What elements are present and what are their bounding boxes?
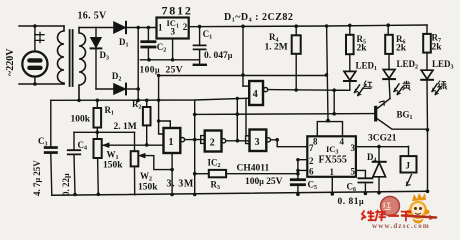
resistor R3 3.3M: [167, 170, 298, 191]
node x326 y75: [325, 73, 329, 77]
svg-text:4: 4: [340, 137, 345, 147]
svg-text:16. 5V: 16. 5V: [78, 11, 107, 22]
wire 555 supply vertical: [327, 26, 328, 121]
svg-text:150k: 150k: [138, 183, 158, 193]
capacitor C4 0.22u: [61, 132, 87, 196]
node W1 bottom rail: [97, 193, 101, 197]
wire x233 stub: [236, 98, 238, 140]
wire pin3 output: [356, 146, 409, 148]
node gate1 bottom rail: [170, 193, 174, 197]
svg-text:0. 047μ: 0. 047μ: [204, 51, 233, 61]
wire AC bottom stub: [19, 83, 64, 85]
node C2 bottom: [147, 58, 151, 62]
resistor R2 2.1M: [114, 99, 151, 145]
svg-text:D1~D4 : 2CZ82: D1~D4 : 2CZ82: [224, 12, 293, 24]
node W2 wiper junction: [170, 168, 174, 172]
watermark seal: [381, 197, 400, 216]
svg-text:2k: 2k: [396, 44, 407, 54]
wire bottom ground rail: [52, 191, 428, 195]
svg-text:www.dzsc.com: www.dzsc.com: [372, 222, 430, 230]
svg-text:3: 3: [351, 143, 356, 153]
resistor R4 1.2M: [265, 26, 301, 90]
node emitter rail junction: [426, 128, 430, 132]
wire raw DC rail y100: [51, 98, 249, 100]
svg-text:0. 22μ: 0. 22μ: [61, 173, 71, 196]
svg-text:2: 2: [210, 138, 215, 149]
watermark text: [361, 210, 411, 221]
svg-text:LED1: LED1: [356, 61, 378, 73]
svg-text:2k: 2k: [432, 43, 443, 53]
AC plug / socket symbol: [22, 51, 47, 76]
LED3 green: [421, 59, 453, 130]
capacitor C2 100u 25V: [140, 28, 166, 60]
svg-text:8: 8: [313, 137, 318, 147]
node top rail x296: [294, 24, 298, 28]
resistor R1 100k: [71, 100, 115, 139]
svg-text:100μ 25V: 100μ 25V: [245, 177, 283, 187]
LED2 yellow: [383, 59, 418, 99]
node long line x233: [236, 112, 240, 116]
wire gate1 bottom: [171, 153, 173, 195]
node D4 bottom rail: [377, 191, 381, 195]
node 555 supply split: [326, 119, 330, 123]
svg-text:100μ 25V: 100μ 25V: [140, 66, 184, 76]
node C5 bottom rail: [296, 193, 300, 197]
svg-text:4. 7μ 25V: 4. 7μ 25V: [32, 160, 42, 196]
node x194 rail: [193, 193, 197, 197]
node x243 y75: [241, 73, 245, 77]
transformer secondary winding: [79, 28, 86, 101]
svg-text:6: 6: [309, 167, 314, 177]
gate U1 (CH4011 NAND, inverter 1): [164, 128, 185, 153]
gate U4 (CH4011 NAND, inverter 4): [243, 81, 268, 105]
svg-text:3. 3M: 3. 3M: [167, 179, 194, 190]
wire LED1 branch vertical: [333, 90, 335, 114]
diode D3: [91, 28, 109, 90]
node right rail bottom: [426, 190, 430, 194]
node secondary bottom: [77, 99, 81, 103]
node D4 top: [377, 145, 381, 149]
wire gate2 to gate3: [226, 140, 250, 142]
node gate3 out: [275, 138, 279, 142]
LED1 red: [334, 61, 377, 96]
svg-text:2: 2: [183, 22, 188, 32]
svg-text:CH4011: CH4011: [237, 164, 270, 174]
node R1 bottom junction: [96, 131, 100, 135]
node x194 gate out: [193, 138, 197, 142]
wire IC1 pin3 ground: [172, 39, 174, 60]
wire step to gate1 top: [159, 121, 171, 128]
wire pin5 to C6: [356, 170, 366, 177]
node C6 bottom rail: [364, 192, 368, 196]
diode D1: [114, 22, 129, 49]
node x158: [157, 119, 160, 122]
svg-text:0. 81μ: 0. 81μ: [338, 197, 365, 207]
wire cathode bus vertical: [137, 28, 139, 101]
svg-text:3CG21: 3CG21: [368, 134, 397, 144]
wire x241 gate3 feed: [246, 98, 250, 136]
svg-text:2. 1M: 2. 1M: [114, 122, 137, 132]
node R3 right: [296, 172, 300, 176]
wire +12V top rail: [189, 25, 427, 27]
wire AC top stub: [19, 25, 64, 27]
node x194 R3: [193, 172, 197, 176]
wire gate3 input tie: [246, 136, 250, 144]
regulator IC1 7812: [157, 4, 193, 39]
watermark arrow pen: [402, 216, 436, 218]
svg-text:2k: 2k: [357, 44, 368, 54]
wire gate4 feed vertical: [242, 26, 244, 86]
node D1 cathode junction: [136, 26, 140, 30]
node pin6: [296, 169, 299, 172]
wire pins 2 and 6: [298, 160, 307, 178]
wire pins 8 and 4 bridge: [317, 122, 342, 137]
node D2 cathode junction: [136, 87, 140, 91]
svg-text:150k: 150k: [103, 161, 123, 171]
diode D2: [96, 71, 138, 94]
relay J: [401, 146, 417, 185]
watermark mascot: [407, 193, 430, 224]
node cathode bus bottom: [136, 99, 140, 103]
wire secondary top: [79, 27, 114, 29]
wire gate2 input tie: [201, 136, 205, 144]
svg-text:2: 2: [309, 156, 314, 166]
transformer core: [70, 30, 73, 86]
node AC bottom junction: [33, 82, 37, 86]
potentiometer W1 150k: [94, 139, 164, 195]
node LED1 branch: [332, 88, 336, 92]
node AC top junction: [33, 24, 37, 28]
capacitor C1 0.047u: [194, 27, 233, 64]
wire y132 branch: [74, 131, 135, 133]
svg-text:~220V: ~220V: [5, 48, 16, 76]
capacitor C3 4.7u 25V: [32, 100, 58, 196]
node gate2 out x237: [236, 139, 240, 143]
capacitor C6 0.81u: [338, 178, 373, 207]
transistor BG1 3CG21: [368, 99, 428, 144]
node top rail x326: [325, 24, 329, 28]
node R1 top: [96, 99, 100, 103]
gate U2 (CH4011 NAND, inverter 2): [205, 131, 226, 152]
svg-text:FX555: FX555: [319, 155, 347, 166]
svg-text:1: 1: [158, 23, 163, 33]
ground symbol: [194, 64, 206, 66]
svg-text:LED3: LED3: [432, 59, 454, 71]
ground rail under IC1: [140, 59, 199, 61]
wire x158 gate1 input feed: [159, 76, 164, 135]
node C4 bottom rail: [73, 193, 77, 197]
node R2 bottom on gate1 input: [145, 143, 149, 147]
resistor R5 2k: [346, 24, 367, 72]
svg-text:LED2: LED2: [397, 59, 419, 71]
svg-text:1: 1: [330, 167, 335, 177]
node R2 top: [145, 99, 149, 103]
svg-text:7812: 7812: [162, 4, 193, 18]
svg-text:5: 5: [351, 167, 356, 177]
svg-text:7: 7: [309, 143, 314, 153]
node top rail x243: [241, 25, 245, 29]
wire y75 to 555 supply: [159, 75, 327, 77]
wire base long line: [195, 113, 375, 116]
wire rectifier output top: [126, 27, 157, 29]
capacitor C5 100u 25V: [245, 177, 317, 195]
wire gate3 out to pin7: [271, 140, 308, 147]
wire right rail: [427, 130, 429, 192]
wire gate4 output: [268, 89, 346, 92]
resistor R6 2k: [385, 23, 407, 69]
wire x194 vertical: [194, 100, 196, 194]
svg-text:3: 3: [255, 137, 260, 148]
svg-text:4: 4: [253, 89, 258, 100]
node x233 top: [236, 97, 239, 100]
svg-text:3: 3: [171, 27, 176, 37]
timer IC3 FX555: [307, 136, 356, 177]
transformer B primary winding: [58, 26, 64, 84]
node R4 bottom: [294, 88, 298, 92]
connector K plug symbol: [35, 32, 44, 42]
svg-text:1. 2M: 1. 2M: [265, 43, 288, 53]
wire gate1 to gate2: [185, 139, 205, 141]
potentiometer W2 150k: [131, 132, 172, 195]
node long line left: [193, 113, 197, 117]
node pin2: [296, 158, 299, 161]
node C1 top: [198, 25, 202, 29]
svg-text:100k: 100k: [71, 115, 91, 125]
resistor R7 2k: [423, 25, 442, 70]
node pin1 rail: [331, 192, 335, 196]
svg-text:1: 1: [169, 137, 174, 148]
node pin3 bottom: [171, 58, 175, 62]
diode D4: [367, 147, 386, 193]
wire pin1 to rail: [331, 177, 333, 194]
gate U3 (CH4011 NAND, inverter 3): [250, 130, 271, 152]
node LED1 branch bottom: [332, 112, 336, 116]
wire plug vertical: [34, 26, 36, 84]
node C2 top junction: [147, 26, 151, 30]
svg-text:J: J: [406, 161, 411, 171]
